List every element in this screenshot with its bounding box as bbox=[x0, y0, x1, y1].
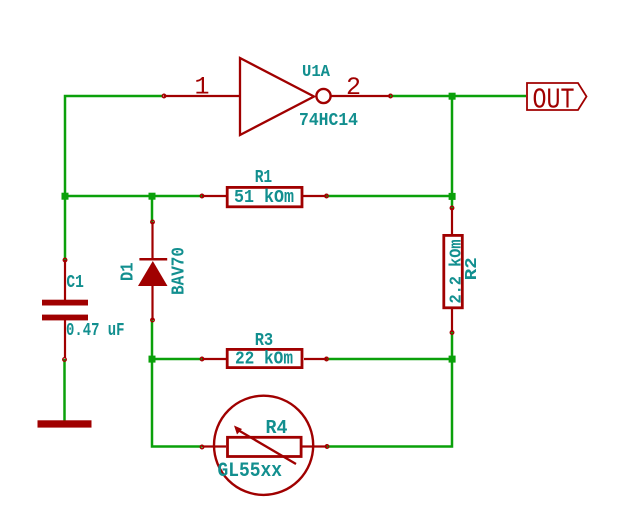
svg-text:C1: C1 bbox=[66, 273, 84, 293]
svg-text:R2: R2 bbox=[463, 257, 482, 280]
svg-text:0.47 uF: 0.47 uF bbox=[66, 321, 125, 341]
svg-text:D1: D1 bbox=[119, 262, 139, 281]
svg-text:R1: R1 bbox=[255, 168, 273, 188]
svg-text:R4: R4 bbox=[266, 417, 288, 439]
svg-text:22 kOm: 22 kOm bbox=[235, 350, 293, 370]
svg-text:74HC14: 74HC14 bbox=[299, 110, 358, 131]
svg-text:BAV70: BAV70 bbox=[170, 247, 190, 295]
svg-text:2: 2 bbox=[346, 73, 361, 102]
svg-text:51 kOm: 51 kOm bbox=[234, 188, 294, 208]
svg-text:1: 1 bbox=[195, 73, 210, 102]
svg-text:U1A: U1A bbox=[302, 62, 330, 81]
svg-text:R3: R3 bbox=[255, 331, 274, 351]
svg-text:OUT: OUT bbox=[533, 83, 575, 116]
svg-text:GL55xx: GL55xx bbox=[218, 460, 283, 483]
